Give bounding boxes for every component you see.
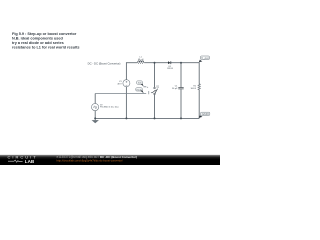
wire V1 branch top bbox=[125, 62, 127, 80]
footer watermark bar bbox=[0, 155, 220, 165]
wire capacitor branch top bbox=[180, 63, 182, 88]
wire bottom rail bbox=[95, 117, 199, 119]
node junction ground bbox=[94, 117, 96, 119]
wire top rail mid (L1 to diode) bbox=[144, 62, 168, 64]
voltage source V2 (pulse) bbox=[92, 104, 99, 111]
title text block bbox=[12, 32, 80, 50]
svg-text:48 V: 48 V bbox=[117, 84, 122, 86]
CircuitLab logo bbox=[8, 155, 38, 164]
svg-text:S1: S1 bbox=[156, 86, 160, 88]
wire control rail (V2 to switch minus) bbox=[95, 93, 146, 95]
svg-text:resistance to L1 for real worl: resistance to L1 for real world results bbox=[12, 46, 80, 50]
wire V2 branch up bbox=[94, 94, 96, 104]
inductor L1 bbox=[138, 61, 144, 64]
svg-text:56 µF: 56 µF bbox=[172, 88, 178, 90]
wire V2 to ground bbox=[94, 111, 96, 121]
svg-text:1N914: 1N914 bbox=[167, 68, 174, 70]
pin label control minus bbox=[151, 92, 152, 94]
svg-text:try a real diode or add series: try a real diode or add series bbox=[12, 41, 64, 45]
voltage source V1 bbox=[123, 80, 130, 87]
wire top rail right (diode to corner) bbox=[171, 62, 199, 64]
node junction bottom of V1 bbox=[125, 117, 127, 119]
svg-text:68 µH: 68 µH bbox=[138, 59, 144, 61]
svg-text:N.B. ideal components used: N.B. ideal components used bbox=[12, 37, 64, 41]
svg-text:GND: GND bbox=[202, 114, 210, 116]
svg-text:e1135371@umail.usq.edu.au / DC: e1135371@umail.usq.edu.au / DC -DC (Boos… bbox=[57, 155, 137, 159]
wire control stub (switch plus) bbox=[144, 86, 147, 88]
resistor R1 bbox=[198, 84, 200, 90]
svg-text:http://circuitlab.com/c6pg5p4e: http://circuitlab.com/c6pg5p4e7k/dc-dc-b… bbox=[57, 159, 123, 163]
diode D1 bbox=[168, 61, 171, 64]
wire capacitor branch bottom bbox=[180, 89, 182, 118]
switch S1 bbox=[152, 87, 158, 94]
wire V1 branch bottom bbox=[125, 87, 127, 119]
svg-text:+: + bbox=[147, 86, 149, 89]
flag SW (switch control plus) bbox=[137, 81, 144, 87]
svg-text:V_out: V_out bbox=[201, 57, 209, 60]
node junction bottom of switch bbox=[154, 117, 156, 119]
ground bbox=[92, 120, 99, 123]
flag GND (bottom right node) bbox=[199, 112, 210, 118]
svg-text:Fig 5.9 : Step-up or boost con: Fig 5.9 : Step-up or boost convertor bbox=[12, 32, 77, 36]
svg-text:100 Ω: 100 Ω bbox=[190, 88, 196, 90]
node junction bottom of capacitor bbox=[180, 117, 182, 119]
wire resistor branch bottom bbox=[198, 89, 200, 118]
capacitor C1 bbox=[178, 88, 183, 89]
node junction top of capacitor bbox=[180, 62, 182, 64]
flag PULSE (switch control minus) bbox=[136, 88, 144, 93]
wire switch branch top bbox=[154, 63, 156, 88]
wire top rail left (V1 to L1) bbox=[126, 62, 137, 64]
svg-text:LAB: LAB bbox=[25, 159, 35, 164]
flag V_OUT (top right node) bbox=[199, 56, 210, 62]
wire resistor branch top bbox=[198, 62, 200, 84]
svg-text:DC - DC (Boost Convertor): DC - DC (Boost Convertor) bbox=[88, 61, 121, 65]
wire switch branch bottom bbox=[154, 95, 156, 119]
svg-text:PULSE(0 5 10u 10u): PULSE(0 5 10u 10u) bbox=[100, 107, 119, 109]
node junction top of switch bbox=[154, 62, 156, 64]
